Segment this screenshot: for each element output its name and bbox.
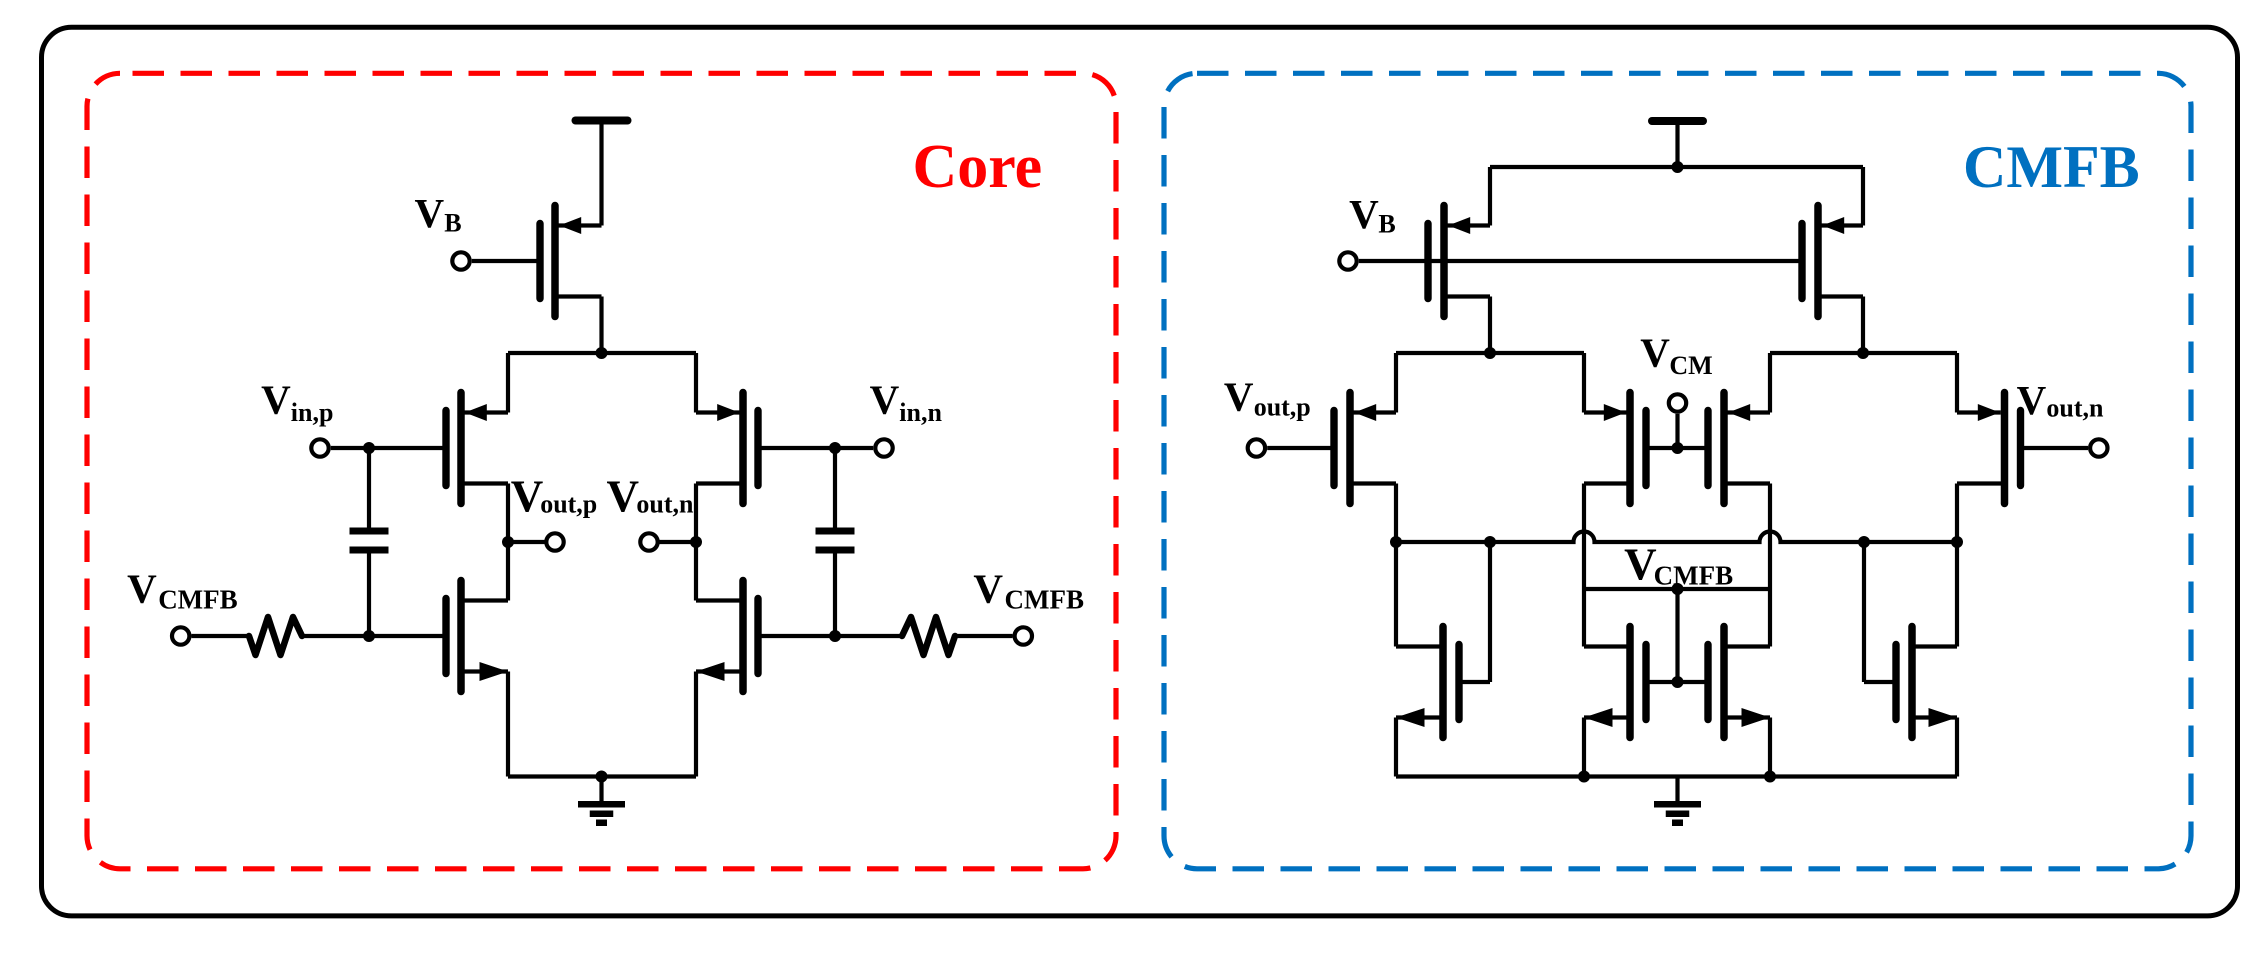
svg-text:V: V [127,566,157,612]
svg-text:V: V [261,376,291,422]
svg-text:CM: CM [1669,351,1712,380]
svg-text:V: V [870,376,900,422]
svg-text:V: V [1624,539,1657,589]
svg-text:out,p: out,p [540,489,597,518]
svg-text:out,p: out,p [1254,393,1311,422]
svg-text:out,n: out,n [2046,394,2104,423]
svg-text:CMFB: CMFB [1963,134,2140,200]
svg-text:V: V [415,190,445,236]
svg-text:CMFB: CMFB [1005,584,1084,614]
svg-text:Core: Core [913,133,1043,201]
svg-text:in,p: in,p [291,398,334,427]
svg-text:V: V [511,471,544,521]
svg-text:CMFB: CMFB [1654,560,1733,590]
svg-text:out,n: out,n [636,489,694,518]
svg-text:B: B [444,208,461,237]
svg-text:CMFB: CMFB [158,584,237,614]
svg-text:V: V [1640,330,1670,376]
svg-text:V: V [973,566,1003,612]
svg-text:B: B [1378,210,1395,239]
svg-text:V: V [2017,377,2047,423]
svg-text:V: V [1224,373,1254,419]
svg-text:V: V [607,471,640,521]
svg-text:V: V [1349,191,1379,237]
svg-text:in,n: in,n [899,398,942,427]
